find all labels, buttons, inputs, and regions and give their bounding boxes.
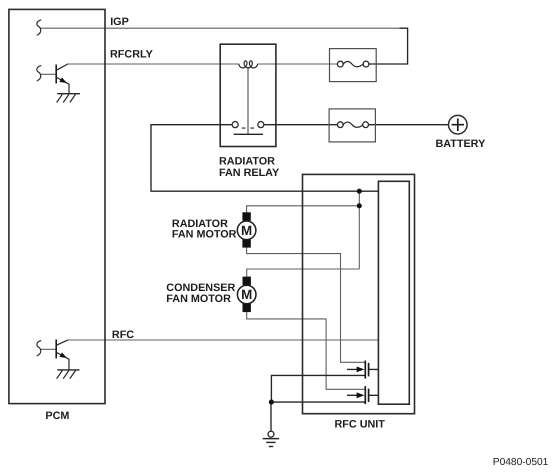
- svg-text:RFC: RFC: [112, 329, 134, 341]
- svg-text:M: M: [241, 287, 252, 302]
- svg-text:RADIATOR: RADIATOR: [219, 156, 275, 168]
- svg-text:P0480-0501: P0480-0501: [493, 457, 549, 468]
- svg-text:M: M: [241, 223, 252, 238]
- svg-text:FAN RELAY: FAN RELAY: [219, 167, 280, 179]
- svg-text:BATTERY: BATTERY: [436, 138, 487, 150]
- svg-text:RFC UNIT: RFC UNIT: [335, 419, 386, 431]
- svg-text:FAN MOTOR: FAN MOTOR: [166, 293, 231, 305]
- svg-text:FAN MOTOR: FAN MOTOR: [172, 229, 237, 241]
- svg-text:RFCRLY: RFCRLY: [110, 49, 154, 61]
- svg-text:PCM: PCM: [45, 410, 69, 422]
- svg-text:IGP: IGP: [110, 16, 129, 28]
